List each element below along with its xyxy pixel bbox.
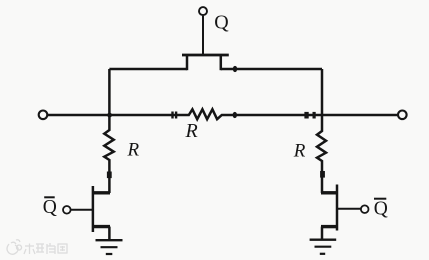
svg-text:R: R bbox=[293, 140, 306, 161]
svg-text:R: R bbox=[127, 140, 140, 161]
svg-text:Q: Q bbox=[374, 199, 388, 220]
svg-text:Q: Q bbox=[214, 11, 229, 33]
svg-text:R: R bbox=[185, 120, 198, 142]
svg-text:Q: Q bbox=[43, 197, 57, 218]
